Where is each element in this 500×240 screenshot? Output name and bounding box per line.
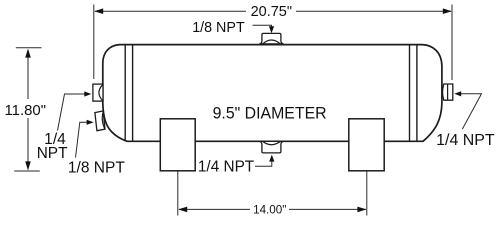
svg-text:1/8 NPT: 1/8 NPT — [192, 20, 245, 36]
svg-text:1/8 NPT: 1/8 NPT — [68, 159, 126, 176]
svg-text:NPT: NPT — [37, 145, 68, 162]
svg-text:9.5" DIAMETER: 9.5" DIAMETER — [213, 105, 327, 123]
svg-text:1/4 NPT: 1/4 NPT — [436, 132, 495, 149]
svg-text:11.80": 11.80" — [5, 102, 47, 119]
svg-text:14.00": 14.00" — [253, 203, 286, 217]
svg-text:20.75": 20.75" — [251, 3, 292, 20]
svg-text:1/4 NPT: 1/4 NPT — [198, 159, 255, 176]
